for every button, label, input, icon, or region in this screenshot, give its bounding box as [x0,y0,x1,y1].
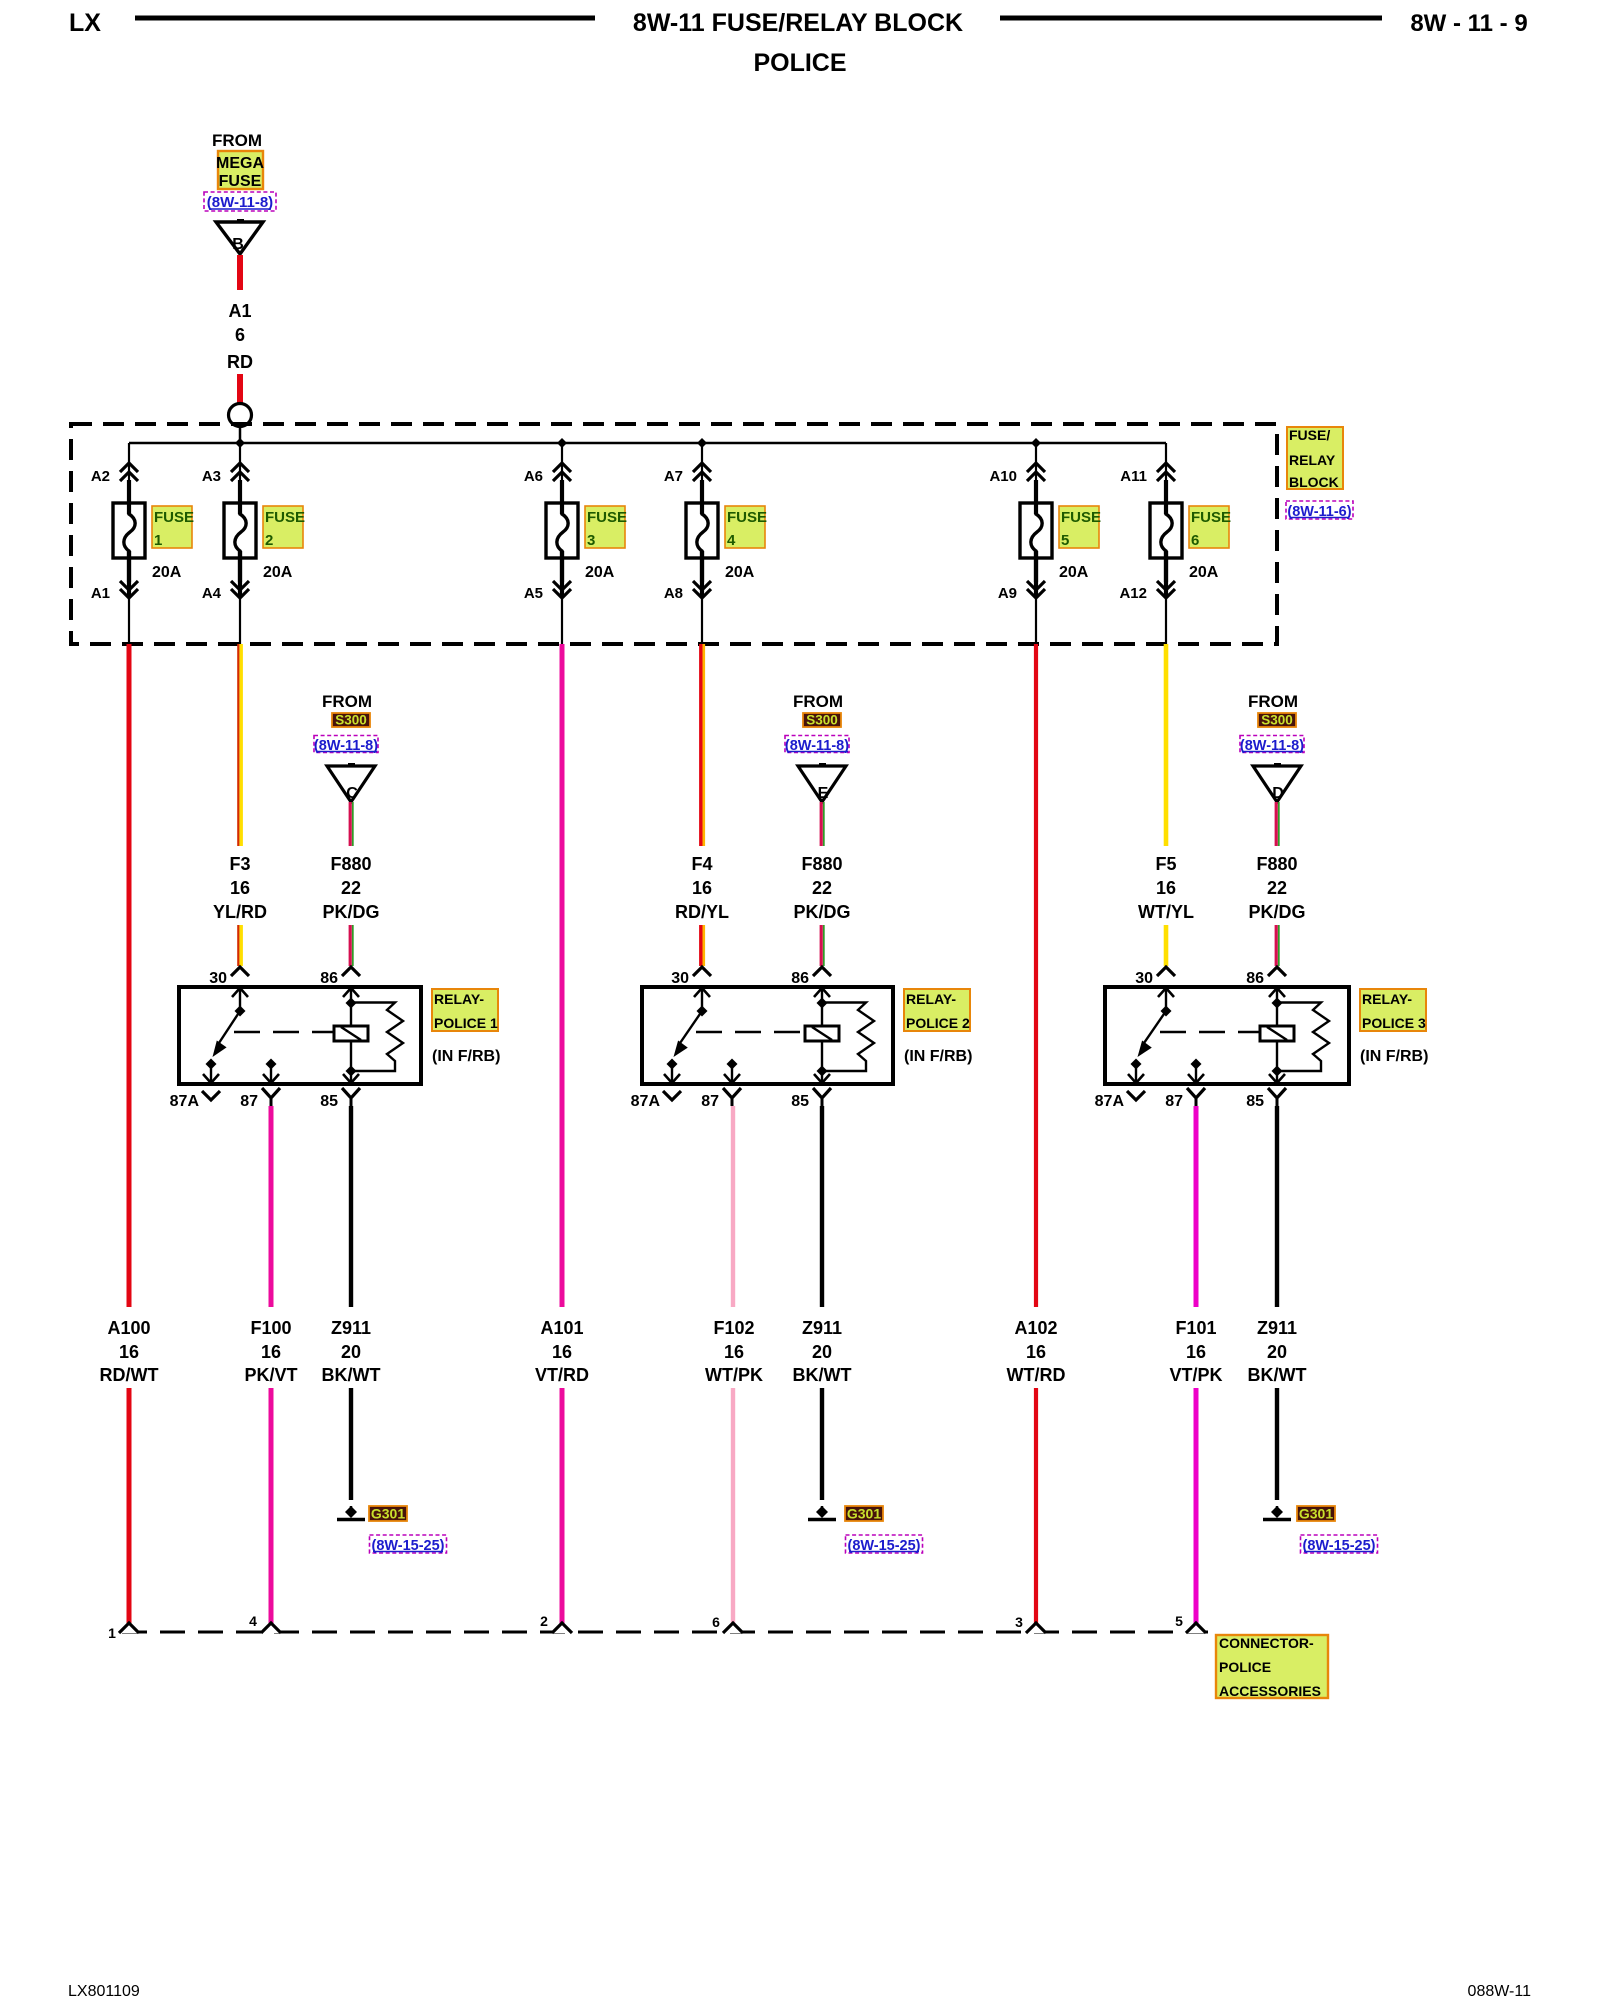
footer drawing number LX801109 [68,1983,140,2000]
terminal A8 (double chevron out) [664,551,711,644]
svg-text:(IN F/RB): (IN F/RB) [432,1048,500,1065]
relay 1 switch arm (30 to 87A) [213,1011,241,1057]
svg-text:S300: S300 [1261,713,1293,728]
relay 2 switch common from pin 30 [694,988,710,1017]
svg-text:FROM: FROM [212,131,262,150]
wire F100 16 PK/VT (magenta) upper segment [269,1106,274,1307]
wire label F100 16 PK/VT [244,1318,297,1385]
hyperlink (8W-15-25) ground (relay 3) [1301,1535,1378,1554]
relay 3 switch arm (30 to 87A) [1138,1011,1167,1057]
wire A101 16 VT/RD (violet/red) upper segment [560,644,565,1307]
fuse FUSE 3 label box [585,506,627,549]
svg-text:20: 20 [341,1342,361,1362]
relay 2 pin 87 internal stub [724,1059,740,1084]
svg-text:16: 16 [1026,1342,1046,1362]
svg-text:87: 87 [240,1093,258,1110]
svg-text:A12: A12 [1119,585,1147,602]
svg-text:FUSE: FUSE [727,509,767,526]
relay 1 location note (IN F/RB) [432,1048,500,1065]
label FROM (S300 feed E) [793,692,843,711]
fuse FUSE 1 rating 20A [152,564,182,581]
relay 2 pin 86 terminal chevron [791,967,831,987]
wire label F101 16 VT/PK [1169,1318,1222,1385]
relay 2 pin 87 terminal chevron [701,1088,741,1110]
svg-text:30: 30 [1135,970,1153,987]
svg-text:FUSE: FUSE [265,509,305,526]
fuse FUSE 4 rating 20A [725,564,755,581]
off-page connector triangle E [798,765,846,802]
svg-text:22: 22 [341,878,361,898]
svg-text:BK/WT: BK/WT [793,1365,852,1385]
svg-text:RD/YL: RD/YL [675,902,729,922]
svg-text:(IN F/RB): (IN F/RB) [904,1048,972,1065]
wire label Z911 20 BK/WT (relay 3) [1248,1318,1307,1385]
wire Z911 20 BK/WT (black) lower segment (relay 3) [1275,1388,1279,1500]
header title 8W-11 FUSE/RELAY BLOCK [633,9,963,37]
svg-text:(8W-11-8): (8W-11-8) [314,738,378,754]
svg-text:20A: 20A [725,564,755,581]
wire A100 16 RD/WT (red) upper segment [127,644,132,1307]
fuse FUSE 2 rating 20A [263,564,293,581]
wire F100 16 PK/VT (magenta) lower segment [269,1388,274,1624]
svg-text:20A: 20A [152,564,182,581]
bus bar inside fuse block [129,442,1166,445]
fuse FUSE 5 rating 20A [1059,564,1089,581]
wire A1 6 RD (red) upper segment [237,255,243,290]
relay 3 pin 87 internal stub [1188,1059,1204,1084]
fuse FUSE 6 rating 20A [1189,564,1219,581]
svg-text:POLICE 3: POLICE 3 [1362,1015,1426,1031]
fuse FUSE 5 20A symbol [1020,480,1052,598]
bus junction at terminal A6 [557,438,567,448]
fuse FUSE 1 20A symbol [113,480,145,598]
svg-text:16: 16 [261,1342,281,1362]
relay 3 pin 87A internal stub [1128,1059,1144,1084]
splice label S300 (D) [1258,713,1296,728]
header page number 8W - 11 - 9 [1410,10,1527,37]
component label MEGA FUSE [216,151,264,190]
svg-text:F100: F100 [250,1318,291,1338]
svg-text:S300: S300 [335,713,367,728]
svg-text:RELAY: RELAY [1289,452,1336,468]
component label RELAY-POLICE 2 [904,989,970,1031]
component label CONNECTOR-POLICE ACCESSORIES [1216,1635,1328,1699]
relay RELAY-POLICE 1 outline [179,987,421,1084]
wire label F880 22 PK/DG (C) [322,854,379,922]
fuse FUSE 3 20A symbol [546,480,578,598]
wire from splice into bus [239,427,242,443]
svg-text:POLICE: POLICE [753,49,846,77]
wire F3 16 YL/RD (yellow/red) lower segment [238,925,241,966]
svg-text:A4: A4 [202,585,222,602]
hyperlink (8W-11-8) for S300 (D) [1240,736,1304,755]
svg-text:PK/DG: PK/DG [322,902,379,922]
svg-text:POLICE 2: POLICE 2 [906,1015,970,1031]
svg-text:FROM: FROM [1248,692,1298,711]
component label FUSE/RELAY BLOCK [1287,427,1343,490]
connector pin 5 terminal chevron [1175,1613,1206,1633]
svg-text:1: 1 [154,532,162,549]
svg-text:16: 16 [692,878,712,898]
splice circle at fuse block feed [229,404,252,427]
svg-text:Z911: Z911 [1257,1318,1297,1338]
relay 2 armature linkage (dashed) [696,1031,804,1033]
svg-text:4: 4 [727,532,736,549]
relay 3 coil [1260,988,1294,1083]
svg-text:87A: 87A [170,1093,200,1110]
ground label G301 (relay 1) [369,1506,407,1522]
svg-text:RELAY-: RELAY- [1362,991,1412,1007]
svg-text:22: 22 [812,878,832,898]
svg-text:20A: 20A [1189,564,1219,581]
wire F880 22 PK/DG upper segment (D) [1276,802,1279,846]
fuse/relay block boundary (dashed) [71,424,1277,644]
svg-text:85: 85 [320,1093,338,1110]
wire F3 16 YL/RD (yellow/red) upper segment [238,644,241,846]
terminal A6 (double chevron in) [524,443,571,485]
svg-text:87A: 87A [631,1093,661,1110]
relay 2 switch arm (30 to 87A) [674,1011,703,1057]
wire label F880 22 PK/DG (E) [793,854,850,922]
off-page connector triangle D [1253,765,1301,802]
svg-text:A10: A10 [989,468,1017,485]
terminal A2 (double chevron in) [91,443,138,485]
wire label F102 16 WT/PK [705,1318,763,1385]
svg-text:F880: F880 [801,854,842,874]
svg-text:(8W-15-25): (8W-15-25) [1302,1538,1375,1554]
terminal A5 (double chevron out) [524,551,571,644]
relay 2 pin 30 terminal chevron [671,967,711,987]
connector boundary dashed line [122,1631,1208,1634]
svg-text:A101: A101 [540,1318,583,1338]
svg-text:G301: G301 [847,1506,881,1522]
component label RELAY-POLICE 3 [1360,989,1426,1031]
svg-text:WT/PK: WT/PK [705,1365,763,1385]
relay 2 pin 87A terminal chevron [631,1091,681,1110]
svg-text:16: 16 [119,1342,139,1362]
fuse FUSE 2 20A symbol [224,480,256,598]
svg-text:20: 20 [812,1342,832,1362]
svg-text:16: 16 [1156,878,1176,898]
relay RELAY-POLICE 2 outline [642,987,893,1084]
header subtitle POLICE [753,49,846,77]
relay 1 pin 87A internal stub [203,1059,219,1084]
svg-text:RELAY-: RELAY- [434,991,484,1007]
wire F880 22 PK/DG lower segment (D) [1276,925,1279,966]
wire label F5 16 WT/YL [1138,854,1194,922]
relay 2 location note (IN F/RB) [904,1048,972,1065]
fuse FUSE 2 label box [263,506,305,549]
wire Z911 20 BK/WT (black) lower segment (relay 2) [820,1388,824,1500]
label FROM (S300 feed D) [1248,692,1298,711]
wire A1 6 RD (red) lower segment [237,374,243,404]
svg-text:A9: A9 [998,585,1017,602]
relay 1 armature linkage (dashed) [234,1031,333,1033]
relay 3 pin 87A terminal chevron [1095,1091,1145,1110]
terminal A3 (double chevron in) [202,443,249,485]
hyperlink (8W-11-8) for S300 (E) [785,736,849,755]
wire A101 16 VT/RD (violet/red) lower segment [560,1388,565,1624]
svg-text:2: 2 [265,532,273,549]
relay 1 pin 85 terminal chevron [320,1088,360,1110]
connector pin 3 terminal chevron [1015,1614,1046,1633]
wire F880 22 PK/DG upper segment (C) [350,802,353,846]
svg-text:POLICE: POLICE [1219,1659,1271,1675]
wire F4 16 RD/YL (red/yellow) lower segment [701,925,704,966]
svg-text:BK/WT: BK/WT [1248,1365,1307,1385]
fuse FUSE 6 label box [1189,506,1231,549]
splice label S300 (C) [332,713,370,728]
svg-text:87: 87 [1165,1093,1183,1110]
relay 1 pin 87 terminal chevron [240,1088,280,1110]
relay 3 pin 85 terminal chevron [1246,1088,1286,1110]
bus junction at terminal A7 [697,438,707,448]
label FROM (S300 feed C) [322,692,372,711]
wire label F4 16 RD/YL [675,854,729,922]
wire A102 16 WT/RD (red) lower segment [1034,1388,1038,1624]
svg-text:Z911: Z911 [802,1318,842,1338]
svg-text:ACCESSORIES: ACCESSORIES [1219,1683,1321,1699]
terminal A10 (double chevron in) [989,443,1045,485]
svg-text:F101: F101 [1175,1318,1216,1338]
ground label G301 (relay 3) [1297,1506,1335,1522]
svg-text:F880: F880 [1256,854,1297,874]
svg-text:2: 2 [540,1613,548,1629]
svg-text:A6: A6 [524,468,543,485]
wire label F880 22 PK/DG (D) [1248,854,1305,922]
bus junction at terminal A10 [1031,438,1041,448]
connector pin 4 terminal chevron [249,1613,281,1633]
svg-text:VT/RD: VT/RD [535,1365,589,1385]
wire A102 16 WT/RD (red) upper segment [1034,644,1038,1307]
svg-text:A2: A2 [91,468,110,485]
svg-text:16: 16 [724,1342,744,1362]
svg-text:6: 6 [1191,532,1199,549]
ground G301 symbol (relay 1) [337,1506,365,1520]
svg-text:3: 3 [1015,1614,1023,1630]
relay 2 pin 87A internal stub [664,1059,680,1084]
wire A100 16 RD/WT (red) lower segment [127,1388,132,1624]
hyperlink (8W-11-8) for mega fuse [204,192,276,211]
relay 3 pin 86 terminal chevron [1246,967,1286,987]
svg-text:16: 16 [230,878,250,898]
svg-text:G301: G301 [371,1506,405,1522]
svg-text:E: E [818,785,829,802]
svg-text:F880: F880 [330,854,371,874]
relay RELAY-POLICE 3 outline [1105,987,1349,1084]
svg-text:86: 86 [1246,970,1264,987]
svg-text:FUSE: FUSE [1061,509,1101,526]
relay 3 coil suppression resistor [1277,1003,1329,1072]
svg-text:LX801109: LX801109 [68,1983,140,2000]
svg-text:16: 16 [1186,1342,1206,1362]
svg-text:(8W-11-8): (8W-11-8) [785,738,849,754]
svg-text:RD: RD [227,352,253,372]
component label RELAY-POLICE 1 [432,989,498,1031]
svg-text:CONNECTOR-: CONNECTOR- [1219,1635,1314,1651]
wire Z911 20 BK/WT (black) upper segment (relay 2) [820,1106,824,1307]
svg-text:3: 3 [587,532,595,549]
fuse FUSE 6 20A symbol [1150,480,1182,598]
hyperlink (8W-11-8) for S300 (C) [314,736,378,755]
relay 1 pin 86 terminal chevron [320,967,360,987]
ground G301 symbol (relay 3) [1263,1506,1291,1520]
relay 3 pin 30 terminal chevron [1135,967,1175,987]
svg-text:Z911: Z911 [331,1318,371,1338]
svg-text:A102: A102 [1014,1318,1057,1338]
terminal A7 (double chevron in) [664,443,711,485]
wire Z911 20 BK/WT (black) lower segment (relay 1) [349,1388,353,1500]
svg-text:16: 16 [552,1342,572,1362]
svg-text:5: 5 [1061,532,1069,549]
svg-text:FUSE/: FUSE/ [1289,427,1330,443]
svg-text:1: 1 [108,1625,116,1641]
relay 3 pin 87 terminal chevron [1165,1088,1205,1110]
svg-text:FUSE: FUSE [154,509,194,526]
svg-text:FROM: FROM [793,692,843,711]
svg-text:F3: F3 [229,854,250,874]
relay 2 coil [805,988,839,1083]
wire F880 22 PK/DG lower segment (E) [821,925,824,966]
wire label A102 16 WT/RD [1007,1318,1066,1385]
svg-text:C: C [346,785,358,802]
svg-text:85: 85 [1246,1093,1264,1110]
relay 1 pin 30 terminal chevron [209,967,249,987]
fuse FUSE 5 label box [1059,506,1101,549]
svg-text:YL/RD: YL/RD [213,902,267,922]
svg-text:FUSE: FUSE [1191,509,1231,526]
terminal A12 (double chevron out) [1119,551,1175,644]
ground G301 symbol (relay 2) [808,1506,836,1520]
fuse FUSE 4 label box [725,506,767,549]
header rule right [1000,16,1382,21]
svg-text:A100: A100 [107,1318,150,1338]
terminal A9 (double chevron out) [998,551,1045,644]
svg-text:(8W-15-25): (8W-15-25) [847,1538,920,1554]
svg-text:RELAY-: RELAY- [906,991,956,1007]
svg-text:6: 6 [712,1614,720,1630]
svg-text:VT/PK: VT/PK [1169,1365,1222,1385]
svg-text:A3: A3 [202,468,221,485]
relay 1 pin 87 internal stub [263,1059,279,1084]
off-page connector triangle C [327,765,375,802]
header rule left [135,16,595,21]
svg-text:D: D [1272,785,1284,802]
svg-text:(8W-11-8): (8W-11-8) [1240,738,1304,754]
svg-text:A5: A5 [524,585,543,602]
svg-text:WT/YL: WT/YL [1138,902,1194,922]
svg-text:4: 4 [249,1613,257,1629]
relay 1 switch common from pin 30 [232,988,248,1017]
wire F880 22 PK/DG lower segment (C) [350,925,353,966]
connector pin 1 terminal chevron [108,1623,139,1641]
wire label Z911 20 BK/WT (relay 1) [322,1318,381,1385]
relay 3 location note (IN F/RB) [1360,1048,1428,1065]
wire Z911 20 BK/WT (black) upper segment (relay 1) [349,1106,353,1307]
wire F4 16 RD/YL (red/yellow) upper segment [701,644,704,846]
svg-text:5: 5 [1175,1613,1183,1629]
svg-text:A8: A8 [664,585,683,602]
svg-text:F5: F5 [1155,854,1176,874]
hyperlink (8W-15-25) ground (relay 2) [846,1535,923,1554]
svg-text:F4: F4 [691,854,712,874]
connector pin 2 terminal chevron [540,1613,572,1633]
wire label Z911 20 BK/WT (relay 2) [793,1318,852,1385]
svg-text:(8W-15-25): (8W-15-25) [371,1538,444,1554]
svg-text:FUSE: FUSE [587,509,627,526]
relay 1 pin 87A terminal chevron [170,1091,220,1110]
svg-text:S300: S300 [806,713,838,728]
svg-text:A1: A1 [228,301,251,321]
hyperlink (8W-15-25) ground (relay 1) [370,1535,447,1554]
svg-text:BK/WT: BK/WT [322,1365,381,1385]
ground label G301 (relay 2) [845,1506,883,1522]
svg-text:86: 86 [791,970,809,987]
wire Z911 20 BK/WT (black) upper segment (relay 3) [1275,1106,1279,1307]
svg-text:B: B [232,236,244,253]
svg-text:PK/DG: PK/DG [793,902,850,922]
svg-text:(8W-11-6): (8W-11-6) [1287,504,1351,520]
wire F102 16 WT/PK (pale pink) upper segment [731,1106,735,1307]
relay 1 coil suppression resistor [351,1003,403,1072]
svg-text:FROM: FROM [322,692,372,711]
svg-text:30: 30 [671,970,689,987]
svg-text:POLICE 1: POLICE 1 [434,1015,498,1031]
hyperlink (8W-11-6) for fuse/relay block [1286,501,1353,520]
svg-text:(IN F/RB): (IN F/RB) [1360,1048,1428,1065]
svg-text:LX: LX [69,9,101,37]
header label LX [69,9,101,37]
svg-text:(8W-11-8): (8W-11-8) [207,194,273,211]
fuse FUSE 1 label box [152,506,194,549]
svg-text:87: 87 [701,1093,719,1110]
terminal A1 (double chevron out) [91,551,138,644]
wire F101 16 VT/PK (magenta) lower segment [1194,1388,1199,1624]
svg-text:RD/WT: RD/WT [100,1365,159,1385]
svg-text:22: 22 [1267,878,1287,898]
wire F880 22 PK/DG upper segment (E) [821,802,824,846]
svg-text:87A: 87A [1095,1093,1125,1110]
svg-text:20: 20 [1267,1342,1287,1362]
svg-text:PK/DG: PK/DG [1248,902,1305,922]
svg-text:20A: 20A [585,564,615,581]
wire F102 16 WT/PK (pale pink) lower segment [731,1388,735,1624]
relay 3 armature linkage (dashed) [1160,1031,1259,1033]
svg-text:20A: 20A [1059,564,1089,581]
svg-text:G301: G301 [1299,1506,1333,1522]
svg-text:F102: F102 [713,1318,754,1338]
fuse FUSE 4 20A symbol [686,480,718,598]
wire F5 16 WT/YL (yellow) lower segment [1164,925,1169,966]
svg-text:86: 86 [320,970,338,987]
svg-text:088W-11: 088W-11 [1468,1983,1532,2000]
svg-text:BLOCK: BLOCK [1289,474,1339,490]
wire label A1 6 RD [227,301,253,372]
svg-text:A1: A1 [91,585,110,602]
relay 3 switch common from pin 30 [1158,988,1174,1017]
svg-text:A7: A7 [664,468,683,485]
terminal A11 (double chevron in) [1120,443,1175,485]
svg-text:FUSE: FUSE [219,173,262,190]
svg-text:WT/RD: WT/RD [1007,1365,1066,1385]
wire label A100 16 RD/WT [100,1318,159,1385]
wire label F3 16 YL/RD [213,854,267,922]
splice label S300 (E) [803,713,841,728]
svg-text:8W - 11 - 9: 8W - 11 - 9 [1410,10,1527,37]
svg-text:85: 85 [791,1093,809,1110]
bus junction at terminal A3 [235,438,245,448]
relay 2 coil suppression resistor [822,1003,874,1072]
